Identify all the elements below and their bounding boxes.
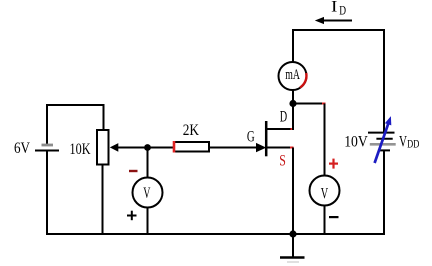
svg-text:D: D <box>339 3 346 18</box>
wire voltmeter V2 top vertical <box>324 104 326 177</box>
svg-text:D: D <box>280 109 287 126</box>
wire ammeter bottom vertical <box>292 90 294 104</box>
wire wiper to resistor horizontal <box>112 147 174 149</box>
svg-text:V: V <box>143 185 150 202</box>
svg-text:V: V <box>321 186 329 203</box>
wire bottom horizontal <box>46 233 385 235</box>
voltmeter V2 <box>310 176 340 206</box>
ammeter mA <box>279 62 307 90</box>
wire voltmeter V2 bottom vertical <box>324 206 326 236</box>
wire top-left horizontal <box>46 104 105 106</box>
svg-text:I: I <box>331 0 337 16</box>
svg-text:V: V <box>399 133 407 150</box>
battery 6V plates <box>35 145 59 151</box>
wire potentiometer bottom vertical <box>102 164 104 235</box>
wire top horizontal <box>293 29 385 31</box>
wire voltmeter V1 bottom vertical <box>147 208 149 236</box>
wire source vertical <box>292 148 294 236</box>
polarity minus of V2 <box>329 216 339 218</box>
source VDD battery plates <box>368 133 396 151</box>
potentiometer RP 10K <box>97 130 118 165</box>
wire VDD branch bottom vertical <box>383 151 385 235</box>
svg-text:10V: 10V <box>344 133 368 150</box>
wire voltmeter V1 top vertical <box>147 148 149 179</box>
wire gate horizontal <box>210 147 257 149</box>
svg-text:G: G <box>247 129 255 146</box>
wire left branch top vertical <box>46 104 48 144</box>
polarity plus (red) of V2 <box>329 159 338 169</box>
wire VDD branch top vertical <box>383 29 385 132</box>
wire drain vertical <box>292 104 294 131</box>
wire ammeter top vertical <box>292 29 294 63</box>
svg-text:6V: 6V <box>14 140 30 157</box>
polarity plus of V1 <box>127 211 137 221</box>
svg-text:mA: mA <box>285 67 300 83</box>
svg-text:DD: DD <box>407 137 419 151</box>
wire left branch bottom vertical <box>46 151 48 235</box>
wire potentiometer top vertical <box>103 105 105 130</box>
variable arrow (blue) of VDD <box>375 116 392 163</box>
polarity minus (red) of V1 <box>129 170 138 172</box>
current arrow ID <box>315 17 352 24</box>
voltmeter V1 <box>133 178 163 208</box>
resistor 2K <box>174 141 209 153</box>
transistor VT JFET <box>256 121 294 156</box>
wire node to V2 horizontal <box>293 103 326 105</box>
node junction below ammeter <box>289 100 296 107</box>
node junction bottom/ground <box>289 230 296 237</box>
ground <box>280 234 305 262</box>
svg-text:10K: 10K <box>70 141 91 158</box>
svg-text:2K: 2K <box>183 122 200 139</box>
svg-text:S: S <box>279 152 286 169</box>
node junction wiper/voltmeter <box>144 144 151 151</box>
